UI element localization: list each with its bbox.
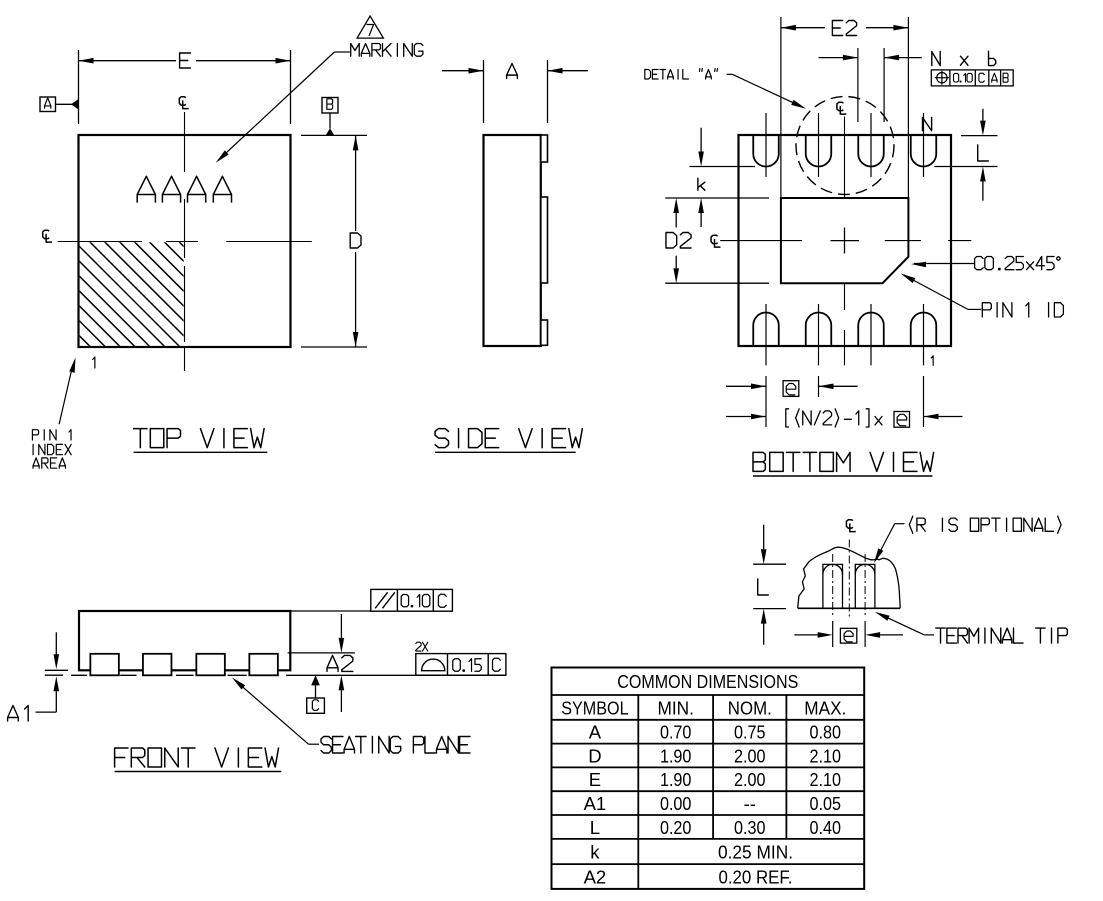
- detail A label: [645, 69, 718, 79]
- svg-text:NOM.: NOM.: [728, 697, 772, 718]
- centerline symbol bottom view top: [837, 102, 846, 114]
- dimension (N/2-1)e: [726, 409, 962, 427]
- dimension A: [442, 64, 588, 79]
- centerline symbol left: [43, 230, 52, 242]
- label terminal tip: [936, 628, 1068, 643]
- svg-text:A1: A1: [584, 793, 607, 814]
- top view horizontal centerline: [58, 241, 312, 243]
- label R is optional: [909, 516, 1061, 533]
- label N: [923, 118, 932, 131]
- pin 1 number bottom view: [931, 356, 933, 366]
- svg-text:k: k: [590, 841, 600, 862]
- common dimensions table grid: [552, 668, 865, 889]
- note 7 triangle: [357, 16, 383, 38]
- dimension A2 tick: [288, 652, 355, 654]
- side view body: [484, 135, 541, 346]
- pin 1 number top view: [93, 357, 95, 368]
- dimension A2: [327, 614, 353, 712]
- svg-text:A2: A2: [584, 866, 607, 887]
- svg-text:0.75: 0.75: [734, 722, 766, 743]
- datum A flag: [40, 97, 79, 112]
- dimension E extension lines: [79, 50, 291, 124]
- svg-text:0.70: 0.70: [660, 722, 692, 743]
- svg-text:0.25 MIN.: 0.25 MIN.: [718, 841, 793, 862]
- detail A terminal centerlines: [833, 554, 865, 617]
- parallelism tolerance frame 0.10 C: [290, 589, 452, 611]
- dimension D2 extension lines: [665, 198, 769, 283]
- side view terminal notch middle: [541, 197, 548, 283]
- svg-text:0.00: 0.00: [660, 793, 692, 814]
- detail dimension L: [758, 525, 769, 645]
- svg-text:2.00: 2.00: [734, 769, 766, 790]
- svg-text:A: A: [589, 722, 602, 743]
- pin 1 index area label: [32, 430, 71, 469]
- svg-text:SYMBOL: SYMBOL: [561, 697, 628, 718]
- detail e extension lines: [833, 621, 865, 647]
- dimension e extension lines: [766, 376, 924, 427]
- front view seating plane extension: [286, 674, 506, 676]
- R leader: [874, 524, 905, 563]
- svg-text:0.30: 0.30: [734, 817, 766, 838]
- terminal tip leader: [875, 612, 934, 635]
- detail A circle: [796, 97, 894, 195]
- svg-text:2.10: 2.10: [810, 769, 842, 790]
- svg-text:0.40: 0.40: [810, 817, 842, 838]
- dimension k: [698, 128, 705, 227]
- svg-text:COMMON DIMENSIONS: COMMON DIMENSIONS: [617, 671, 798, 692]
- top view title: [134, 429, 268, 453]
- dimension E2 extension lines: [781, 17, 909, 198]
- centerline symbol detail: [846, 520, 855, 532]
- dimension L reference ticks: [961, 135, 998, 137]
- dimension e: [726, 381, 858, 397]
- svg-text:L: L: [590, 817, 600, 838]
- front view terminals: [90, 654, 278, 676]
- svg-text:MIN.: MIN.: [657, 697, 694, 718]
- centerline symbol top: [179, 97, 188, 109]
- svg-text:2.10: 2.10: [810, 745, 842, 766]
- marking leader: [216, 52, 350, 163]
- pin 1 index hatched area: [0, 235, 347, 365]
- detail dimension e: [794, 628, 903, 643]
- seating plane leader: [232, 678, 319, 745]
- bottom terminals centerlines: [766, 304, 924, 365]
- bottom view package outline: [739, 135, 952, 346]
- svg-text:0.80: 0.80: [810, 722, 842, 743]
- label C0.25x45: [975, 257, 1061, 270]
- svg-text:1.90: 1.90: [660, 745, 692, 766]
- front view seating plane dashed line: [71, 674, 247, 676]
- svg-text:0.20: 0.20: [660, 817, 692, 838]
- top terminals centerlines: [766, 113, 924, 177]
- side view terminal notch top: [541, 135, 548, 162]
- dimension A1 ticks: [45, 670, 68, 675]
- svg-text:MAX.: MAX.: [804, 697, 846, 718]
- chamfer leader: [911, 262, 975, 268]
- front view body: [79, 611, 290, 670]
- label PIN 1 ID: [982, 303, 1063, 317]
- detail A leader: [727, 74, 806, 108]
- detail A package blob outline: [798, 547, 901, 608]
- dimension D: [350, 135, 361, 347]
- position tolerance frame 0.10 C A B: [931, 70, 1013, 86]
- dimension E2: [781, 21, 909, 36]
- datum B flag: [322, 98, 338, 136]
- seating plane label: [321, 737, 470, 754]
- bottom view horizontal centerline: [720, 240, 971, 242]
- pin 1 index leader: [59, 358, 75, 425]
- front view title: [115, 748, 282, 772]
- svg-text:E: E: [589, 769, 601, 790]
- bottom view title: [753, 452, 934, 476]
- dimension A1: [8, 632, 60, 721]
- exposed pad center cross: [831, 228, 860, 254]
- profile tolerance frame 2X 0.15 C: [416, 642, 506, 675]
- terminal tip reference line: [690, 166, 998, 168]
- exposed pad with pin1 chamfer: [781, 198, 909, 283]
- bottom view bottom row terminals: [753, 313, 936, 346]
- svg-text:--: --: [744, 793, 756, 814]
- dimension b extension lines: [858, 48, 884, 122]
- svg-text:0.05: 0.05: [810, 793, 842, 814]
- top view vertical centerline: [184, 112, 186, 371]
- svg-text:1.90: 1.90: [660, 769, 692, 790]
- detail A terminals: [823, 564, 875, 608]
- svg-text:2.00: 2.00: [734, 745, 766, 766]
- svg-text:D: D: [588, 745, 601, 766]
- detail A bottom line: [798, 607, 901, 609]
- marking label: [351, 44, 423, 57]
- marking text AAAA: [137, 176, 231, 202]
- side view title: [435, 429, 582, 453]
- common dimensions table text: [561, 671, 846, 887]
- dimension E: [79, 53, 291, 68]
- dimension D extension lines: [301, 135, 367, 347]
- bottom view vertical centerline: [844, 117, 846, 366]
- bottom view top row terminals: [753, 135, 936, 167]
- pin1 id leader: [901, 274, 981, 310]
- detail A center line: [848, 540, 850, 617]
- svg-text:0.20 REF.: 0.20 REF.: [719, 866, 793, 887]
- dimension A extension lines: [484, 60, 548, 123]
- side view terminal notch bottom: [541, 320, 548, 345]
- top view package outline: [79, 135, 291, 347]
- detail L ticks: [753, 564, 786, 608]
- datum C flag: [307, 675, 325, 713]
- dimension L arrows: [978, 109, 989, 201]
- label N x b: [932, 51, 996, 65]
- dimension D2: [666, 198, 691, 283]
- dimension N x b arrows: [819, 55, 922, 61]
- centerline symbol bottom view left: [711, 235, 720, 247]
